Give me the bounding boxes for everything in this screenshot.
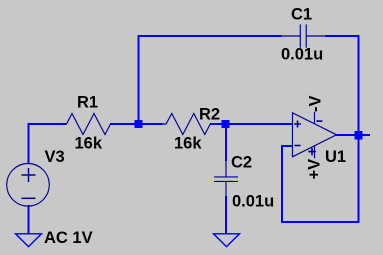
svg-text:0.01u: 0.01u <box>232 192 274 210</box>
svg-text:U1: U1 <box>325 148 346 166</box>
svg-text:C2: C2 <box>231 154 252 172</box>
svg-text:+V: +V <box>306 159 324 180</box>
svg-text:R1: R1 <box>77 93 98 111</box>
svg-text:C1: C1 <box>291 6 312 24</box>
svg-text:R2: R2 <box>199 106 220 124</box>
svg-text:16k: 16k <box>174 134 202 152</box>
svg-text:V3: V3 <box>45 148 65 166</box>
svg-text:0.01u: 0.01u <box>281 46 323 64</box>
svg-text:AC 1V: AC 1V <box>44 229 93 247</box>
svg-text:-V: -V <box>307 96 325 113</box>
svg-text:16k: 16k <box>75 134 103 152</box>
